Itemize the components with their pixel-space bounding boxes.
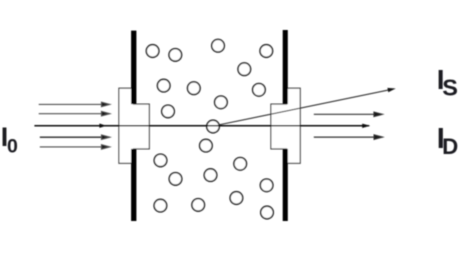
- svg-text:0: 0: [7, 135, 18, 157]
- svg-text:D: D: [442, 134, 458, 159]
- svg-text:S: S: [442, 74, 458, 100]
